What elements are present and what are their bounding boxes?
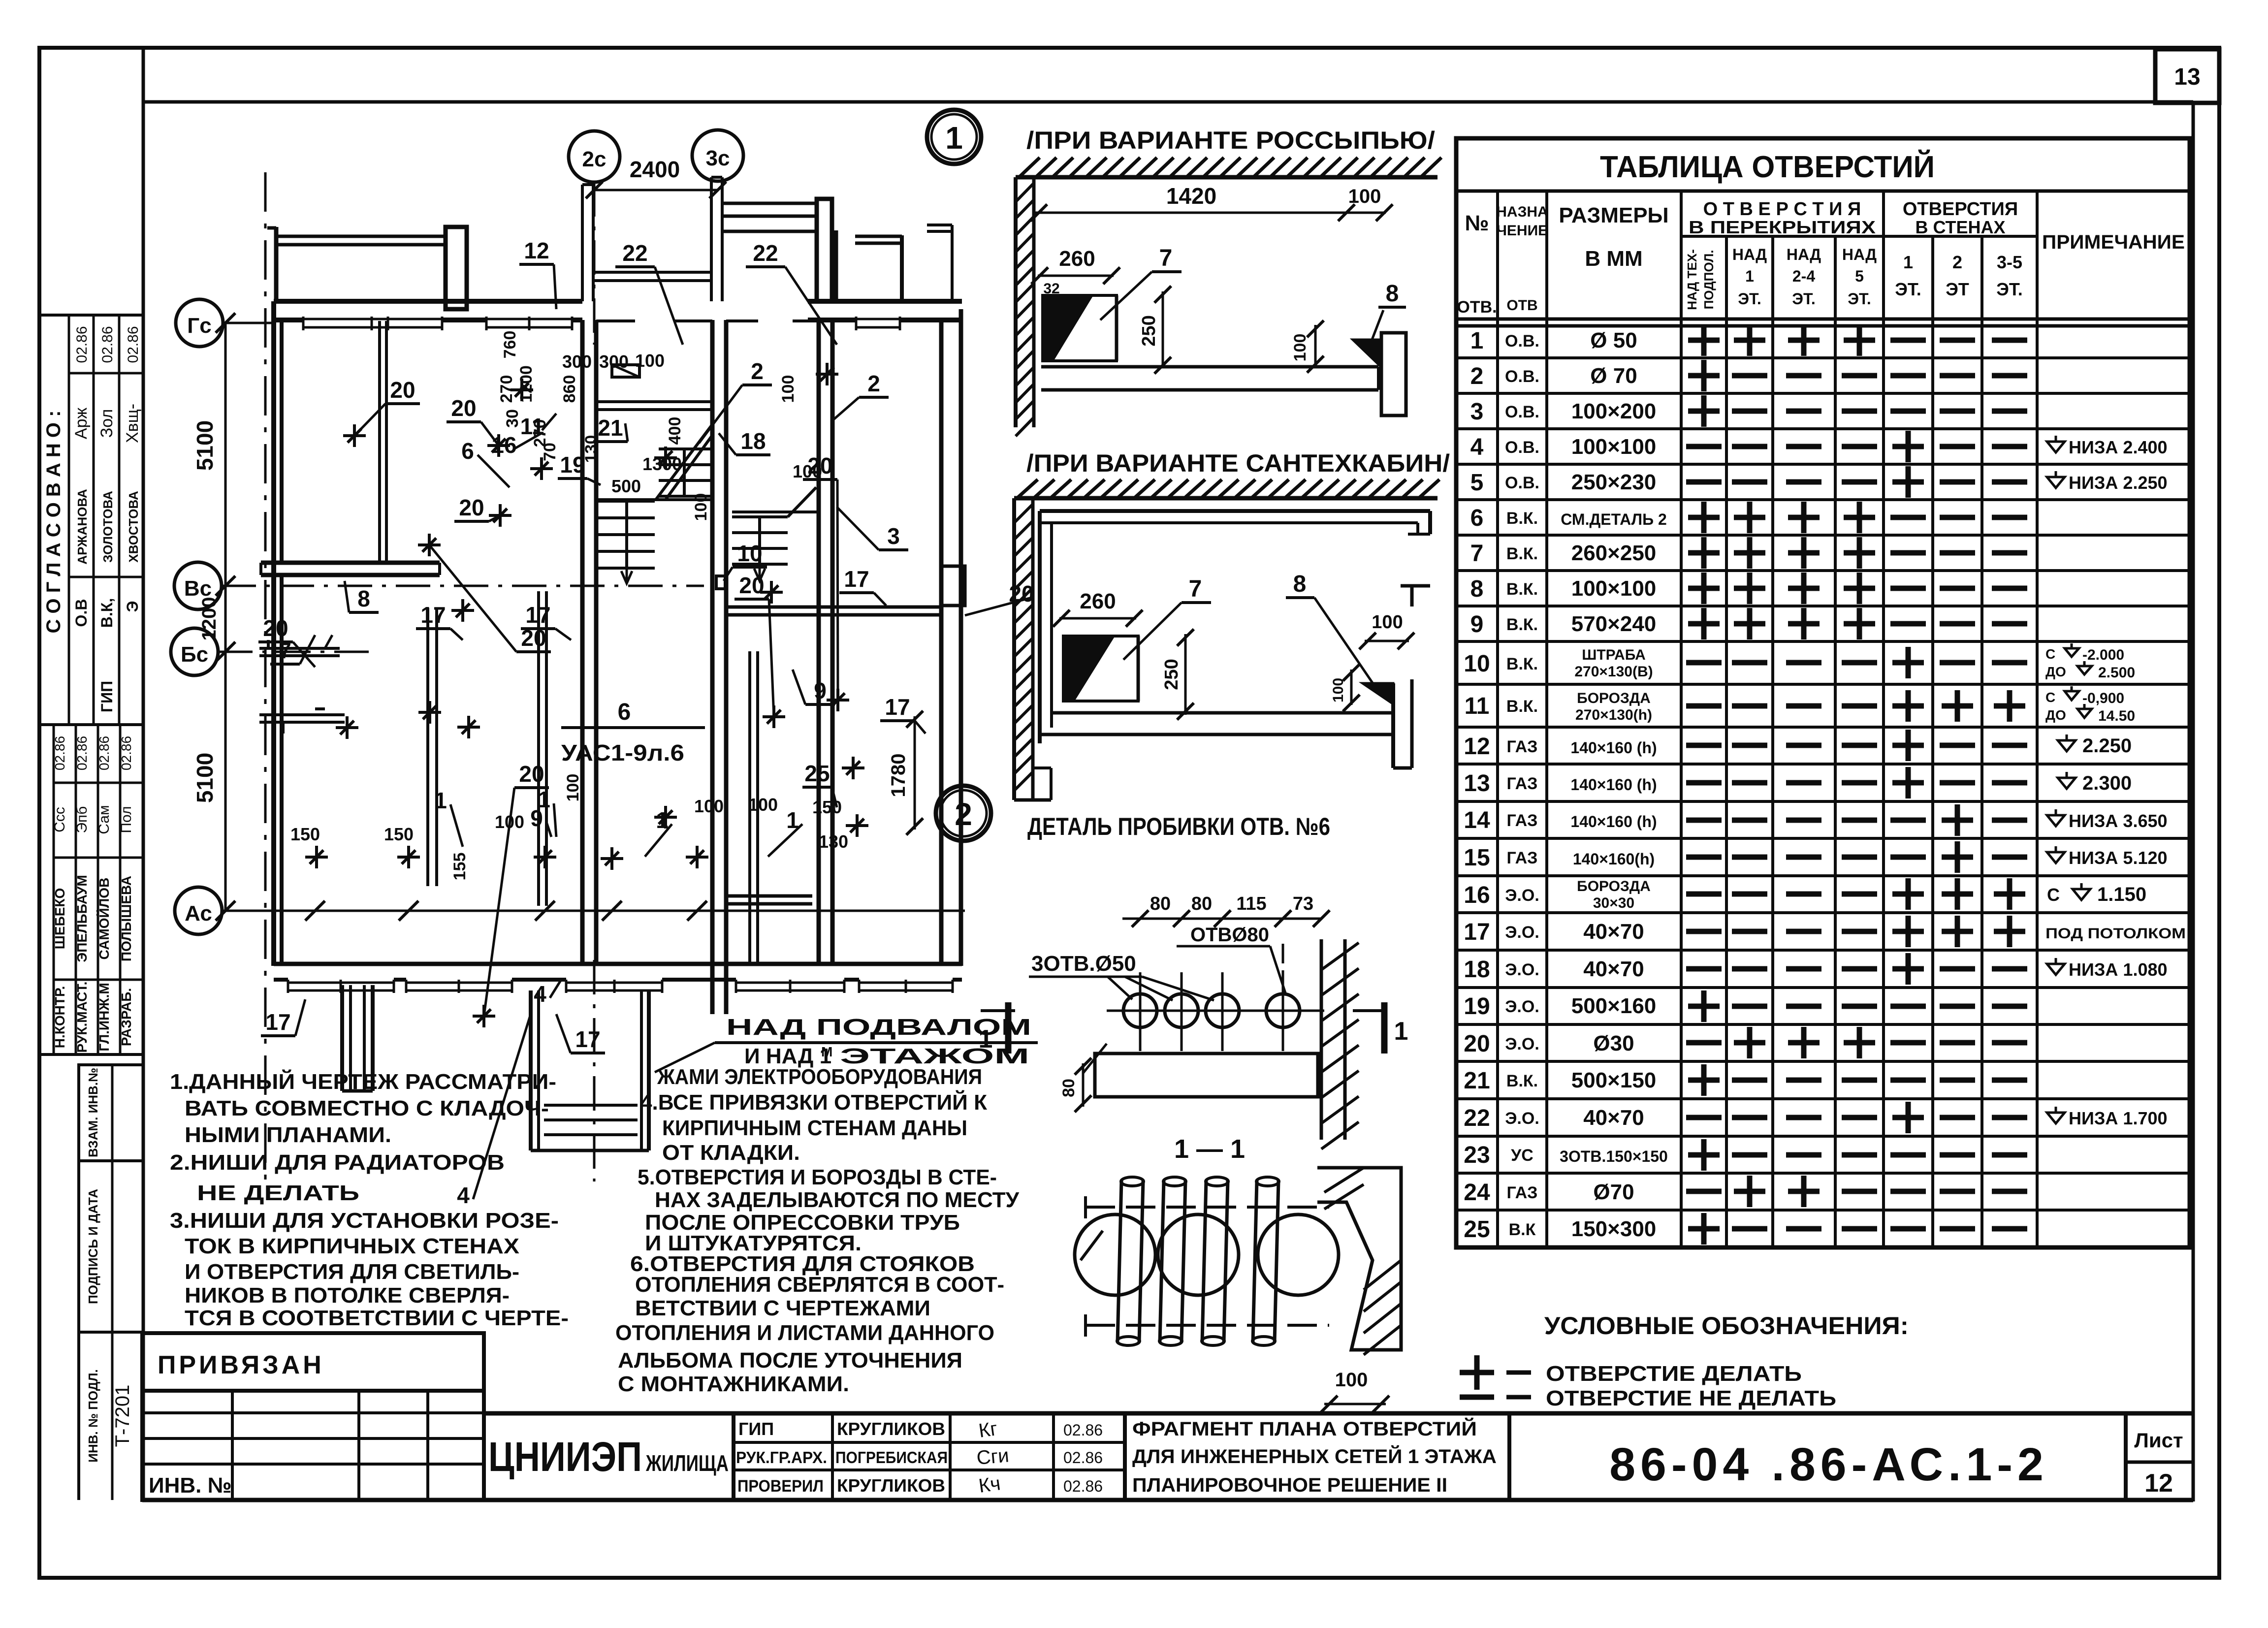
axis line As horizontal bbox=[222, 910, 965, 912]
svg-text:КРУГЛИКОВ: КРУГЛИКОВ bbox=[837, 1475, 945, 1496]
svg-text:И НАД 1: И НАД 1 bbox=[744, 1044, 831, 1068]
svg-text:О.В.: О.В. bbox=[1505, 474, 1539, 492]
svg-text:НИЗА 3.650: НИЗА 3.650 bbox=[2069, 811, 2168, 831]
svg-text:Ø 70: Ø 70 bbox=[1590, 364, 1637, 388]
svg-text:140×160 (h): 140×160 (h) bbox=[1570, 813, 1657, 830]
svg-text:270×130(В): 270×130(В) bbox=[1574, 664, 1653, 680]
svg-text:ОТОПЛЕНИЯ СВЕРЛЯТСЯ В СООТ-: ОТОПЛЕНИЯ СВЕРЛЯТСЯ В СООТ- bbox=[635, 1273, 1004, 1297]
sidebar section line top bbox=[39, 314, 143, 317]
svg-text:86-04 .86-АС.1-2: 86-04 .86-АС.1-2 bbox=[1609, 1438, 2048, 1491]
svg-text:Н.КОНТР.: Н.КОНТР. bbox=[52, 986, 67, 1048]
svg-text:16: 16 bbox=[1464, 882, 1490, 908]
svg-text:2-4: 2-4 bbox=[1792, 267, 1815, 285]
svg-text:О.В.: О.В. bbox=[1505, 332, 1539, 351]
svg-text:100: 100 bbox=[692, 493, 710, 521]
svg-text:ЭТ: ЭТ bbox=[1946, 279, 1969, 299]
svg-text:1: 1 bbox=[1745, 267, 1754, 285]
svg-text:13: 13 bbox=[2174, 64, 2200, 90]
svg-text:19: 19 bbox=[1464, 993, 1490, 1020]
svg-text:4: 4 bbox=[457, 1182, 470, 1208]
svg-text:1300: 1300 bbox=[642, 454, 682, 474]
svg-text:2: 2 bbox=[1952, 252, 1962, 272]
svg-text:115: 115 bbox=[1236, 894, 1266, 914]
svg-text:3.НИШИ ДЛЯ УСТАНОВКИ РОЗЕ-: 3.НИШИ ДЛЯ УСТАНОВКИ РОЗЕ- bbox=[170, 1209, 559, 1233]
svg-text:80: 80 bbox=[1150, 894, 1171, 914]
svg-text:16: 16 bbox=[491, 432, 516, 458]
detail 1 left wall hatch bbox=[1014, 177, 1018, 427]
svg-text:ПЛАНИРОВОЧНОЕ РЕШЕНИЕ II: ПЛАНИРОВОЧНОЕ РЕШЕНИЕ II bbox=[1132, 1474, 1447, 1496]
svg-text:02.86: 02.86 bbox=[52, 736, 67, 770]
svg-text:250: 250 bbox=[1161, 659, 1182, 690]
openings table title bbox=[1456, 190, 2190, 193]
svg-text:20: 20 bbox=[451, 395, 476, 421]
svg-text:20: 20 bbox=[519, 761, 544, 787]
svg-text:760: 760 bbox=[501, 331, 519, 359]
detail 2 circle bbox=[936, 786, 991, 841]
svg-text:УСЛОВНЫЕ ОБОЗНАЧЕНИЯ:: УСЛОВНЫЕ ОБОЗНАЧЕНИЯ: bbox=[1544, 1312, 1909, 1340]
svg-text:6: 6 bbox=[461, 438, 474, 464]
svg-text:5.ОТВЕРСТИЯ И БОРОЗДЫ В СТЕ-: 5.ОТВЕРСТИЯ И БОРОЗДЫ В СТЕ- bbox=[638, 1165, 997, 1189]
svg-text:8: 8 bbox=[357, 586, 370, 611]
svg-text:150: 150 bbox=[812, 797, 842, 817]
svg-text:22: 22 bbox=[1464, 1105, 1490, 1131]
svg-text:400: 400 bbox=[666, 417, 684, 445]
svg-text:100: 100 bbox=[1335, 1369, 1368, 1391]
svg-text:РАЗРАБ.: РАЗРАБ. bbox=[119, 988, 134, 1046]
sidebar lower stamps bbox=[79, 1065, 143, 1161]
svg-text:АЛЬБОМА ПОСЛЕ УТОЧНЕНИЯ: АЛЬБОМА ПОСЛЕ УТОЧНЕНИЯ bbox=[618, 1348, 962, 1373]
detail 1 dim 250 bbox=[1162, 291, 1164, 368]
svg-text:ХВОСТОВА: ХВОСТОВА bbox=[126, 491, 141, 563]
axis line left vertical bbox=[264, 172, 267, 1181]
svg-text:НАЗНА: НАЗНА bbox=[1496, 204, 1548, 220]
detail 1 circle bbox=[927, 110, 981, 164]
svg-text:1: 1 bbox=[945, 120, 963, 156]
svg-text:ДЛЯ ИНЖЕНЕРНЫХ СЕТЕЙ 1 ЭТАЖА: ДЛЯ ИНЖЕНЕРНЫХ СЕТЕЙ 1 ЭТАЖА bbox=[1132, 1445, 1497, 1468]
svg-text:В.К.: В.К. bbox=[1506, 509, 1538, 528]
svg-text:Гс: Гс bbox=[187, 314, 211, 338]
svg-text:17: 17 bbox=[525, 602, 550, 628]
svg-text:860: 860 bbox=[560, 375, 579, 403]
svg-text:40×70: 40×70 bbox=[1583, 957, 1644, 981]
svg-text:Бс: Бс bbox=[181, 642, 208, 667]
svg-text:02.86: 02.86 bbox=[74, 736, 90, 770]
svg-text:ГАЗ: ГАЗ bbox=[1507, 737, 1538, 756]
svg-text:2.300: 2.300 bbox=[2082, 772, 2132, 794]
svg-text:ГАЗ: ГАЗ bbox=[1507, 811, 1538, 830]
svg-text:73: 73 bbox=[1293, 894, 1313, 914]
svg-text:2: 2 bbox=[955, 797, 972, 832]
svg-text:18: 18 bbox=[1464, 957, 1490, 983]
svg-text:22: 22 bbox=[753, 240, 778, 266]
plan stair landing bbox=[596, 498, 712, 501]
svg-text:Э.О.: Э.О. bbox=[1505, 923, 1539, 942]
detail 1b dim 100 bbox=[1365, 640, 1409, 642]
svg-text:4.ВСЕ ПРИВЯЗКИ ОТВЕРСТИЙ К: 4.ВСЕ ПРИВЯЗКИ ОТВЕРСТИЙ К bbox=[640, 1089, 987, 1115]
svg-text:5: 5 bbox=[1855, 267, 1864, 285]
svg-text:02.86: 02.86 bbox=[1063, 1421, 1103, 1439]
title block privyazan box bbox=[142, 1333, 484, 1391]
svg-text:В.К.: В.К. bbox=[1506, 1072, 1538, 1090]
detail 2 centerline bbox=[1107, 1010, 1310, 1012]
svg-text:ДО: ДО bbox=[2045, 707, 2066, 723]
svg-text:ЗОЛОТОВА: ЗОЛОТОВА bbox=[100, 491, 115, 563]
svg-text:15: 15 bbox=[1464, 845, 1490, 871]
plan partition x1100 bbox=[537, 591, 540, 906]
svg-text:В.К.: В.К. bbox=[1506, 655, 1538, 673]
svg-text:100: 100 bbox=[694, 796, 724, 816]
svg-text:/ПРИ ВАРИАНТЕ РОССЫПЬЮ/: /ПРИ ВАРИАНТЕ РОССЫПЬЮ/ bbox=[1026, 127, 1435, 154]
svg-text:ДЕТАЛЬ ПРОБИВКИ ОТВ. №6: ДЕТАЛЬ ПРОБИВКИ ОТВ. №6 bbox=[1027, 813, 1330, 840]
svg-text:УС: УС bbox=[1511, 1146, 1533, 1165]
svg-text:О.В: О.В bbox=[72, 599, 90, 627]
svg-text:18: 18 bbox=[740, 428, 766, 454]
svg-text:500×160: 500×160 bbox=[1571, 994, 1657, 1018]
detail 1 right wall bbox=[1381, 333, 1406, 415]
svg-text:20: 20 bbox=[739, 573, 764, 598]
legend minus row bbox=[1460, 1395, 1494, 1400]
plan stairwell top lintels bbox=[596, 319, 635, 322]
plan east protrusion 17 bbox=[941, 566, 965, 606]
svg-text:ПОЛЫШЕВА: ПОЛЫШЕВА bbox=[119, 876, 134, 961]
svg-text:02.86: 02.86 bbox=[1063, 1449, 1103, 1467]
svg-text:Э: Э bbox=[124, 601, 141, 612]
svg-text:40×70: 40×70 bbox=[1583, 1106, 1644, 1130]
svg-text:10: 10 bbox=[1464, 651, 1490, 677]
svg-text:17: 17 bbox=[575, 1026, 600, 1052]
plan pillar top bbox=[446, 227, 467, 309]
svg-text:С МОНТАЖНИКАМИ.: С МОНТАЖНИКАМИ. bbox=[618, 1372, 849, 1396]
svg-text:5100: 5100 bbox=[192, 420, 218, 471]
svg-text:70: 70 bbox=[541, 443, 559, 461]
svg-text:2с: 2с bbox=[582, 147, 607, 171]
svg-text:№: № bbox=[1465, 211, 1489, 235]
svg-text:5: 5 bbox=[1470, 470, 1484, 496]
page number box 13 bbox=[2155, 49, 2219, 103]
svg-text:В.К.: В.К. bbox=[1506, 615, 1538, 634]
svg-text:М: М bbox=[821, 1044, 832, 1059]
title block org box bbox=[482, 1413, 486, 1500]
svg-text:Кч: Кч bbox=[977, 1472, 1002, 1497]
title block left grid bbox=[142, 1391, 484, 1500]
svg-text:НАД ПОДВАЛОМ: НАД ПОДВАЛОМ bbox=[726, 1014, 1031, 1040]
svg-text:ОТВЕРСТИЕ ДЕЛАТЬ: ОТВЕРСТИЕ ДЕЛАТЬ bbox=[1546, 1362, 1802, 1386]
detail 1b dim 260 bbox=[1059, 617, 1136, 620]
svg-text:И ОТВЕРСТИЯ ДЛЯ СВЕТИЛЬ-: И ОТВЕРСТИЯ ДЛЯ СВЕТИЛЬ- bbox=[185, 1260, 519, 1284]
svg-text:Э.О.: Э.О. bbox=[1505, 997, 1539, 1016]
svg-text:ДО: ДО bbox=[2045, 664, 2066, 679]
svg-text:7: 7 bbox=[1470, 541, 1484, 567]
title block list box bbox=[2124, 1413, 2128, 1500]
detail 1 element 8 bbox=[1353, 340, 1378, 364]
svg-text:500×150: 500×150 bbox=[1571, 1068, 1657, 1092]
svg-text:ВЕТСТВИИ С ЧЕРТЕЖАМИ: ВЕТСТВИИ С ЧЕРТЕЖАМИ bbox=[635, 1296, 930, 1320]
svg-text:Т-7201: Т-7201 bbox=[112, 1385, 133, 1447]
plan dim 1780 bbox=[914, 716, 916, 830]
svg-text:4: 4 bbox=[534, 981, 546, 1007]
svg-text:570×240: 570×240 bbox=[1571, 612, 1657, 636]
svg-text:17: 17 bbox=[420, 602, 446, 628]
plan balcony top-left bbox=[274, 227, 279, 301]
plan beam x720 y1440 bbox=[315, 707, 325, 710]
svg-text:100×100: 100×100 bbox=[1571, 576, 1657, 601]
svg-text:Ø30: Ø30 bbox=[1593, 1031, 1634, 1055]
plan canopy 2c-3c bbox=[581, 185, 584, 301]
svg-text:10: 10 bbox=[737, 541, 762, 566]
svg-text:13: 13 bbox=[1464, 770, 1490, 797]
svg-text:Лист: Лист bbox=[2134, 1429, 2183, 1452]
svg-text:ИНВ. №: ИНВ. № bbox=[149, 1473, 232, 1498]
svg-text:12: 12 bbox=[1464, 734, 1490, 760]
svg-text:2: 2 bbox=[751, 358, 764, 384]
plan bottom facade wall bbox=[274, 962, 962, 966]
svg-text:Кг: Кг bbox=[977, 1418, 999, 1442]
svg-text:2.500: 2.500 bbox=[2098, 665, 2135, 681]
svg-text:ГИП: ГИП bbox=[738, 1419, 774, 1439]
svg-text:ОТ КЛАДКИ.: ОТ КЛАДКИ. bbox=[662, 1141, 800, 1165]
svg-text:С О Г Л А С О В А Н О :: С О Г Л А С О В А Н О : bbox=[43, 411, 64, 634]
svg-text:ЭПЕЛЬБАУМ: ЭПЕЛЬБАУМ bbox=[74, 875, 90, 962]
svg-text:500: 500 bbox=[611, 476, 641, 496]
svg-text:02.86: 02.86 bbox=[99, 326, 116, 363]
svg-text:ШЕБЕКО: ШЕБЕКО bbox=[52, 888, 67, 949]
svg-text:Э.О.: Э.О. bbox=[1505, 1109, 1539, 1128]
svg-text:12: 12 bbox=[2144, 1469, 2173, 1498]
svg-text:ГАЗ: ГАЗ bbox=[1507, 774, 1538, 793]
svg-text:21: 21 bbox=[598, 415, 623, 441]
svg-text:НИЗА 5.120: НИЗА 5.120 bbox=[2069, 848, 2168, 868]
title block main outline bbox=[484, 1411, 2193, 1416]
svg-text:4: 4 bbox=[1470, 434, 1484, 460]
svg-text:С: С bbox=[2045, 690, 2055, 705]
openings table row lines bbox=[1456, 356, 2190, 359]
svg-text:-2.000: -2.000 bbox=[2082, 647, 2124, 663]
svg-text:25: 25 bbox=[804, 761, 830, 786]
svg-text:СМ.ДЕТАЛЬ 2: СМ.ДЕТАЛЬ 2 bbox=[1561, 511, 1667, 528]
svg-text:ШТРАБА: ШТРАБА bbox=[1582, 647, 1646, 663]
plan second stair grid bbox=[732, 515, 788, 518]
detail 1 floor slab bbox=[1041, 365, 1378, 369]
svg-text:ЖИЛИЩА: ЖИЛИЩА bbox=[645, 1450, 729, 1476]
sidebar soglasovano block bbox=[39, 723, 143, 726]
svg-text:БОРОЗДА: БОРОЗДА bbox=[1577, 690, 1651, 706]
plan partition right x1520 bbox=[748, 651, 751, 966]
detail 1b ceiling hatch bbox=[1014, 496, 1437, 501]
svg-text:Ас: Ас bbox=[185, 901, 212, 926]
axis circle 3c bbox=[692, 130, 743, 181]
svg-text:НАХ ЗАДЕЛЫВАЮТСЯ ПО МЕСТУ: НАХ ЗАДЕЛЫВАЮТСЯ ПО МЕСТУ bbox=[655, 1188, 1020, 1212]
svg-text:-0,900: -0,900 bbox=[2082, 690, 2124, 706]
detail 1 dim 260 bbox=[1038, 275, 1114, 277]
plan second wall right bbox=[817, 320, 821, 966]
plan partition x775 bbox=[378, 321, 381, 563]
svg-text:17: 17 bbox=[1464, 919, 1490, 945]
svg-text:02.86: 02.86 bbox=[96, 736, 112, 770]
detail 2 section marker right bbox=[1353, 1009, 1386, 1012]
openings table outer bbox=[1456, 138, 2190, 1247]
svg-text:Пол: Пол bbox=[118, 806, 134, 833]
svg-text:О.В.: О.В. bbox=[1505, 438, 1539, 457]
svg-text:С: С bbox=[2045, 646, 2055, 662]
svg-text:140×160(h): 140×160(h) bbox=[1573, 850, 1655, 868]
svg-text:02.86: 02.86 bbox=[1063, 1477, 1103, 1495]
detail 1b cabin outline bbox=[1040, 509, 1430, 513]
svg-text:250×230: 250×230 bbox=[1571, 470, 1657, 494]
section 1-1 pipes bbox=[1118, 1181, 1121, 1342]
svg-text:30: 30 bbox=[503, 409, 522, 428]
svg-text:260: 260 bbox=[1059, 247, 1095, 271]
svg-text:УАС1-9л.6: УАС1-9л.6 bbox=[561, 740, 684, 766]
dim 2400 top bbox=[594, 189, 718, 192]
detail 1b element 7 opening bbox=[1063, 636, 1114, 701]
svg-text:11: 11 bbox=[1465, 693, 1490, 719]
svg-text:100×100: 100×100 bbox=[1571, 435, 1657, 459]
detail 2 slab bbox=[1095, 1053, 1318, 1097]
svg-text:О.В.: О.В. bbox=[1505, 367, 1539, 386]
svg-text:В ММ: В ММ bbox=[1585, 247, 1642, 271]
svg-text:8: 8 bbox=[1470, 576, 1484, 602]
sheet inner right border helper bbox=[2192, 102, 2195, 1501]
axis line Bs horizontal bbox=[218, 651, 374, 653]
svg-text:2.250: 2.250 bbox=[2082, 735, 2132, 757]
svg-text:/ПРИ ВАРИАНТЕ САНТЕХКАБИН/: /ПРИ ВАРИАНТЕ САНТЕХКАБИН/ bbox=[1026, 449, 1450, 477]
svg-text:О.В.: О.В. bbox=[1505, 403, 1539, 421]
svg-text:6: 6 bbox=[1470, 505, 1484, 531]
section 1-1 wall hatched bbox=[1317, 1168, 1401, 1350]
svg-text:17: 17 bbox=[844, 566, 869, 592]
svg-text:8: 8 bbox=[1386, 281, 1399, 307]
svg-text:140×160 (h): 140×160 (h) bbox=[1570, 739, 1657, 757]
svg-text:20: 20 bbox=[1464, 1031, 1490, 1057]
svg-text:Сги: Сги bbox=[976, 1444, 1010, 1469]
svg-text:В.К.: В.К. bbox=[1506, 544, 1538, 563]
svg-text:260: 260 bbox=[1080, 589, 1116, 613]
detail 1b right top tee bbox=[1401, 584, 1430, 588]
svg-text:ПРИВЯЗАН: ПРИВЯЗАН bbox=[158, 1351, 324, 1379]
svg-text:НАД ТЕХ-: НАД ТЕХ- bbox=[1685, 249, 1699, 310]
svg-text:100: 100 bbox=[779, 375, 798, 403]
svg-text:8: 8 bbox=[1293, 571, 1307, 597]
svg-text:Ø70: Ø70 bbox=[1593, 1180, 1634, 1204]
svg-text:80: 80 bbox=[1191, 894, 1212, 914]
svg-text:150: 150 bbox=[384, 824, 414, 844]
detail 1b left wall hatch bbox=[1012, 498, 1016, 800]
svg-text:В.К: В.К bbox=[1509, 1220, 1536, 1239]
detail 1b dim 250 bbox=[1184, 634, 1187, 715]
svg-text:БОРОЗДА: БОРОЗДА bbox=[1577, 878, 1651, 894]
svg-text:ГЛ.ИНЖ.М: ГЛ.ИНЖ.М bbox=[96, 983, 112, 1051]
svg-text:150: 150 bbox=[290, 824, 320, 844]
svg-text:НИЗА 1.080: НИЗА 1.080 bbox=[2069, 959, 2168, 980]
svg-text:100: 100 bbox=[793, 461, 822, 481]
svg-text:1420: 1420 bbox=[1166, 183, 1216, 209]
svg-text:1.150: 1.150 bbox=[2097, 884, 2146, 905]
svg-text:14: 14 bbox=[1464, 807, 1490, 833]
svg-text:40×70: 40×70 bbox=[1583, 920, 1644, 944]
svg-text:ЦНИИЭП: ЦНИИЭП bbox=[488, 1434, 642, 1480]
svg-text:С: С bbox=[2047, 885, 2060, 905]
plan dim ticks on As axis bbox=[305, 901, 325, 921]
svg-text:1200: 1200 bbox=[517, 365, 536, 403]
axis line Vs horizontal bbox=[222, 585, 704, 587]
svg-text:ТСЯ В СООТВЕТСТВИИ С ЧЕРТЕ-: ТСЯ В СООТВЕТСТВИИ С ЧЕРТЕ- bbox=[185, 1306, 569, 1330]
svg-text:Э.О.: Э.О. bbox=[1505, 1035, 1539, 1053]
svg-text:ПРИМЕЧАНИЕ: ПРИМЕЧАНИЕ bbox=[2042, 231, 2185, 253]
svg-text:9: 9 bbox=[1470, 611, 1484, 638]
svg-text:ЭТ.: ЭТ. bbox=[1895, 279, 1921, 299]
svg-text:ЭТ.: ЭТ. bbox=[1996, 279, 2023, 299]
svg-text:2400: 2400 bbox=[630, 157, 680, 182]
svg-text:250: 250 bbox=[1139, 315, 1159, 346]
openings table header double rule bbox=[1456, 318, 2190, 321]
plan element Bs left bbox=[259, 647, 340, 650]
svg-text:150×300: 150×300 bbox=[1571, 1217, 1657, 1241]
svg-text:1: 1 bbox=[1394, 1017, 1408, 1046]
plan wall right horizontal y1825 bbox=[727, 894, 812, 898]
svg-text:270×130(h): 270×130(h) bbox=[1575, 707, 1652, 723]
svg-text:300: 300 bbox=[562, 351, 592, 372]
title block document number bbox=[1507, 1413, 1511, 1500]
plan east wall bbox=[939, 320, 944, 966]
svg-text:ЧЕНИЕ: ЧЕНИЕ bbox=[1497, 223, 1548, 239]
svg-text:14.50: 14.50 bbox=[2098, 708, 2135, 724]
svg-text:9: 9 bbox=[814, 678, 827, 703]
svg-text:100: 100 bbox=[1348, 186, 1381, 207]
svg-text:ПОГРЕБИСКАЯ: ПОГРЕБИСКАЯ bbox=[835, 1448, 948, 1467]
sidebar approvals block bbox=[53, 725, 55, 1054]
detail 1 element 7 opening bbox=[1043, 295, 1092, 360]
svg-text:ФРАГМЕНТ ПЛАНА ОТВЕРСТИЙ: ФРАГМЕНТ ПЛАНА ОТВЕРСТИЙ bbox=[1132, 1417, 1477, 1440]
svg-text:КИРПИЧНЫМ СТЕНАМ ДАНЫ: КИРПИЧНЫМ СТЕНАМ ДАНЫ bbox=[662, 1116, 967, 1140]
svg-text:23: 23 bbox=[1464, 1142, 1490, 1168]
svg-text:ЭТ.: ЭТ. bbox=[1738, 290, 1761, 308]
plan wall Vs bbox=[261, 561, 440, 565]
svg-text:В.К.: В.К. bbox=[1506, 580, 1538, 599]
svg-text:НИКОВ В ПОТОЛКЕ СВЕРЛЯ-: НИКОВ В ПОТОЛКЕ СВЕРЛЯ- bbox=[185, 1283, 510, 1308]
plan stair exit bottom bbox=[529, 990, 533, 1150]
svg-text:270: 270 bbox=[497, 375, 516, 403]
axis vertical dimension line bbox=[224, 323, 227, 911]
svg-text:140×160 (h): 140×160 (h) bbox=[1570, 776, 1657, 794]
plan stair flight A grid bbox=[596, 500, 655, 503]
svg-text:6: 6 bbox=[618, 699, 631, 725]
detail 1b element 8 bbox=[1363, 683, 1393, 704]
svg-text:ГИП: ГИП bbox=[98, 681, 116, 712]
svg-text:АРЖАНОВА: АРЖАНОВА bbox=[75, 489, 90, 565]
plan stair flight B winders bbox=[659, 447, 712, 450]
plan partition x870 bbox=[426, 608, 429, 886]
svg-text:Эпб: Эпб bbox=[74, 806, 90, 833]
detail 1b bottom foot bbox=[1014, 798, 1051, 802]
svg-text:Сам: Сам bbox=[96, 805, 112, 834]
plan top facade wall bbox=[274, 299, 582, 304]
svg-text:НИЗА 2.250: НИЗА 2.250 bbox=[2069, 473, 2168, 493]
svg-text:РУК.МАСТ.: РУК.МАСТ. bbox=[74, 982, 90, 1053]
svg-text:17: 17 bbox=[265, 1009, 290, 1035]
axis line Gs horizontal bbox=[223, 322, 276, 324]
svg-text:ПОД ПОТОЛКОМ: ПОД ПОТОЛКОМ bbox=[2045, 926, 2186, 942]
svg-text:100: 100 bbox=[1291, 334, 1310, 362]
svg-text:ГАЗ: ГАЗ bbox=[1507, 849, 1538, 867]
svg-text:12: 12 bbox=[524, 238, 549, 263]
svg-text:ЭТАЖОМ: ЭТАЖОМ bbox=[840, 1044, 1029, 1068]
detail 1 dim 1420 bbox=[1034, 212, 1386, 214]
svg-text:ТАБЛИЦА ОТВЕРСТИЙ: ТАБЛИЦА ОТВЕРСТИЙ bbox=[1600, 150, 1935, 184]
plan west wall bbox=[271, 301, 276, 966]
svg-text:155: 155 bbox=[450, 853, 469, 881]
svg-text:300: 300 bbox=[599, 351, 629, 372]
svg-text:ГАЗ: ГАЗ bbox=[1507, 1183, 1538, 1202]
